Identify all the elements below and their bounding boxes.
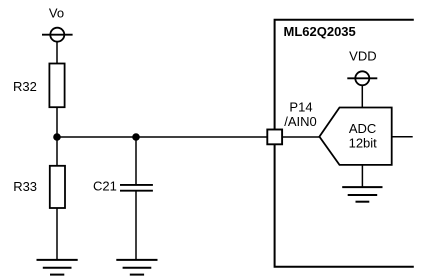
wire pin P14 to ADC xyxy=(282,136,319,138)
wire node B to C21 xyxy=(135,137,137,185)
svg-text:VDD: VDD xyxy=(349,49,376,64)
wire R33 to ground xyxy=(56,208,58,260)
terminal VDD xyxy=(347,71,377,85)
ground below R33 xyxy=(37,260,78,275)
wire Vo to R32 xyxy=(56,42,58,64)
IC U1 ML62Q2035 outline xyxy=(275,20,414,267)
resistor R32 xyxy=(49,64,64,108)
ground below ADC xyxy=(342,187,382,202)
svg-text:12bit: 12bit xyxy=(349,136,378,151)
wire node A to R33 xyxy=(56,137,58,166)
capacitor C21 xyxy=(120,185,153,191)
wire node A to pin P14 xyxy=(57,136,267,138)
svg-text:ML62Q2035: ML62Q2035 xyxy=(284,24,356,39)
svg-text:/AIN0: /AIN0 xyxy=(284,114,317,129)
wire ADC output xyxy=(392,136,413,138)
terminal Vo xyxy=(42,28,73,42)
wire ADC to ground xyxy=(361,165,363,187)
svg-text:R33: R33 xyxy=(13,179,37,194)
svg-text:Vo: Vo xyxy=(49,6,64,21)
svg-text:ADC: ADC xyxy=(349,121,376,136)
wire R32 to node A xyxy=(56,107,58,137)
ADC block xyxy=(319,108,391,165)
wire VDD to ADC xyxy=(361,85,363,107)
wire C21 to ground xyxy=(135,191,137,260)
node B junction dot xyxy=(132,133,140,141)
node A junction dot xyxy=(53,133,61,141)
svg-text:C21: C21 xyxy=(93,178,117,193)
resistor R33 xyxy=(50,166,65,208)
pin P14 square xyxy=(267,130,282,145)
ground below C21 xyxy=(116,260,157,275)
svg-text:R32: R32 xyxy=(13,79,37,94)
svg-text:P14: P14 xyxy=(289,100,312,115)
